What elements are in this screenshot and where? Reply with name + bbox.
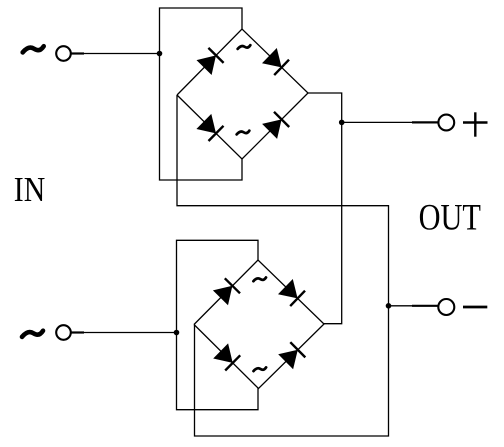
svg-text:OUT: OUT — [419, 198, 482, 238]
svg-text:IN: IN — [14, 171, 45, 210]
